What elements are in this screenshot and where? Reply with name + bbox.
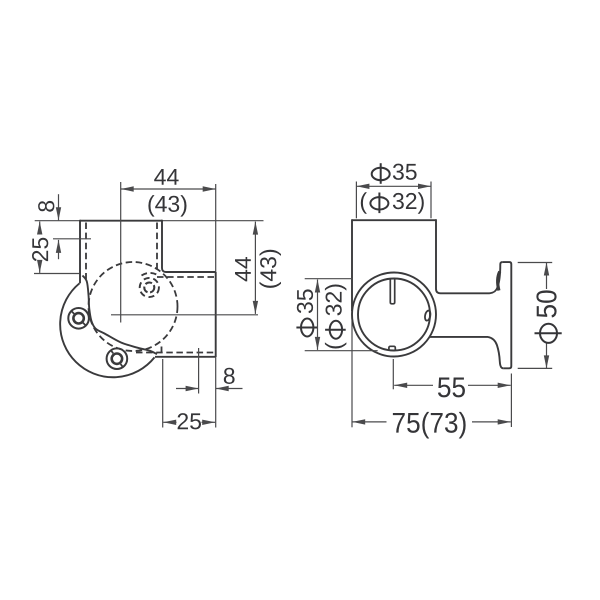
dimension phi35 (phi32) top of right view bbox=[355, 182, 357, 219]
dimension 25 left bbox=[39, 222, 41, 235]
dimension 55 bbox=[392, 359, 394, 389]
ball visible silhouette arc bbox=[83, 276, 158, 355]
dimension 75 (73) bbox=[352, 421, 386, 423]
top slot bbox=[390, 279, 394, 304]
wall plate bbox=[503, 262, 512, 368]
centerlines bbox=[120, 182, 122, 323]
flange arc (wall plate, lower-left) bbox=[60, 283, 154, 377]
hidden (dashed) inner walls of vertical pipe bbox=[85, 223, 87, 280]
arm bottom edge bbox=[430, 336, 488, 338]
left view pipe outline bbox=[35, 220, 80, 222]
set screw hole (3 o-clock, inside) bbox=[424, 310, 431, 321]
flare fillet mark (top crescent) bbox=[498, 272, 500, 291]
dimension 44 (43) top bbox=[121, 188, 216, 190]
hidden inner wall of horizontal pipe (top) bbox=[157, 276, 216, 278]
dimension 25 bottom bbox=[162, 359, 164, 428]
hidden inner wall of horizontal pipe (bottom) bbox=[136, 352, 216, 354]
bottom slot bbox=[389, 346, 395, 351]
dimension 44 (43) right side bbox=[254, 222, 256, 314]
horizontal pipe end-on: outer circle bbox=[352, 273, 436, 357]
flange flare bottom curve bbox=[488, 337, 503, 368]
dimension phi35 (phi32) left of circle bbox=[305, 278, 353, 280]
screw hole 1 (left) bbox=[68, 308, 89, 329]
dimension 8 bottom-right bbox=[198, 348, 200, 394]
ball hidden circle (dashed) bbox=[89, 262, 178, 351]
dimension phi50 (flange) bbox=[518, 262, 553, 264]
dimension 8 top-left bbox=[58, 194, 60, 220]
screw hole 2 (bottom) bbox=[107, 348, 128, 369]
set screw detail on ball bbox=[144, 283, 154, 293]
socket pipe outline bbox=[352, 219, 436, 221]
flange flare top curve bbox=[490, 262, 503, 293]
inner circle (pipe bore) bbox=[358, 279, 430, 351]
